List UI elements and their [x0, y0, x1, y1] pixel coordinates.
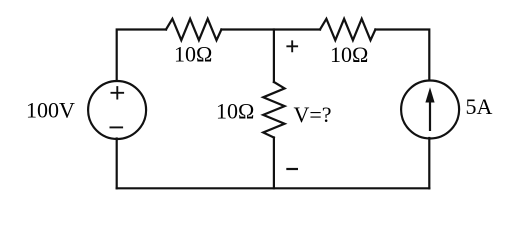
- current source I1 circle: [401, 81, 459, 139]
- wire top right + right vertical down to current source: [375, 30, 429, 81]
- wire left vertical below source: [116, 139, 118, 189]
- plus sign polarity of V=?: [286, 40, 298, 52]
- plus sign inside voltage source: [111, 86, 125, 99]
- minus sign polarity of V=?: [286, 168, 298, 170]
- svg-text:5A: 5A: [466, 94, 493, 119]
- svg-text:100V: 100V: [26, 97, 75, 122]
- svg-text:V=?: V=?: [294, 102, 332, 127]
- resistor R3 10ohm middle vertical: [263, 82, 284, 138]
- wire right vertical below source: [428, 138, 430, 188]
- minus sign inside voltage source: [110, 126, 124, 128]
- resistor R1 10ohm top-left: [166, 19, 221, 40]
- wire middle branch bottom: [273, 138, 275, 189]
- wire top middle: [221, 28, 320, 30]
- resistor R2 10ohm top-right: [320, 19, 375, 40]
- wire middle branch top: [273, 30, 275, 83]
- svg-text:10Ω: 10Ω: [216, 99, 254, 124]
- current source arrow: [425, 87, 434, 131]
- wire top left horizontal: [117, 30, 166, 81]
- svg-text:10Ω: 10Ω: [330, 42, 368, 67]
- svg-text:10Ω: 10Ω: [174, 42, 212, 67]
- voltage source V1 circle: [88, 81, 146, 139]
- wire bottom rail: [117, 187, 430, 189]
